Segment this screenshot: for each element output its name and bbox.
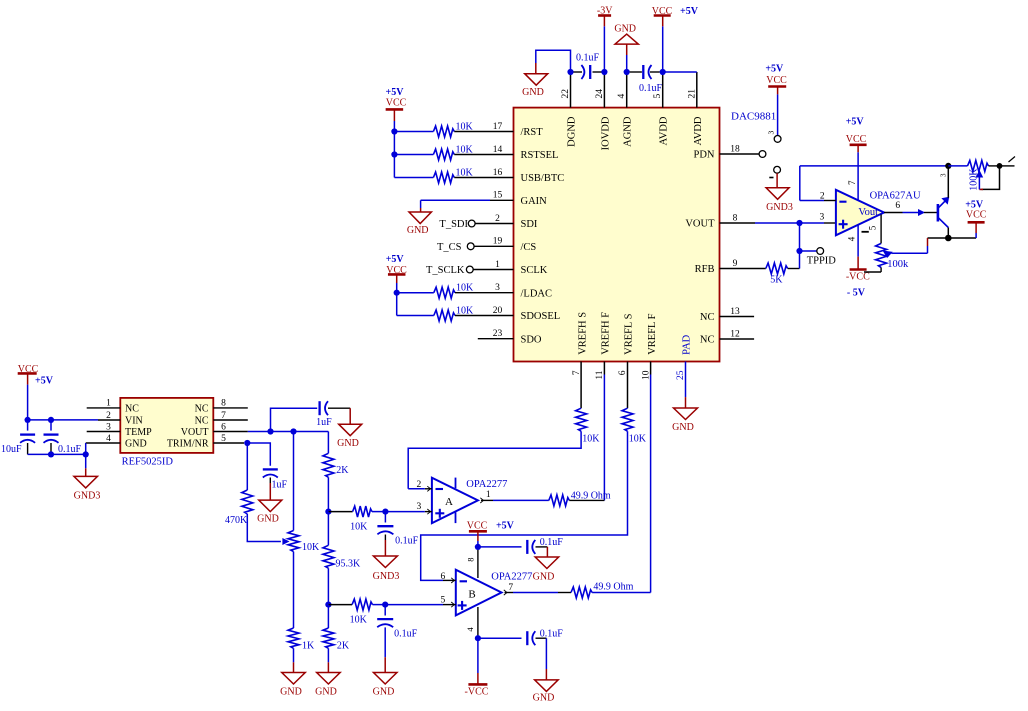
svg-text:NC: NC	[700, 312, 715, 323]
U1 pin number 25	[676, 370, 686, 380]
test point T_CS circle	[467, 243, 474, 250]
wire AGND to GND	[626, 44, 628, 72]
svg-text:GND: GND	[315, 687, 337, 698]
wire 95.3K to node B	[327, 568, 329, 604]
U4 pin8 stub	[213, 407, 248, 409]
svg-text:/LDAC: /LDAC	[521, 288, 553, 299]
svg-text:RFB: RFB	[695, 264, 715, 275]
U2 pin 7 number	[847, 180, 857, 185]
resistor 10K (pin 14 series)	[433, 149, 454, 160]
capacitor 10uF pins	[27, 420, 29, 431]
resistor 2K (top)	[323, 453, 334, 477]
U3A pin 2 number	[417, 480, 422, 490]
wire IOVDD to -3V	[603, 16, 605, 73]
wire pin4 to gnd rail	[85, 443, 87, 454]
capacitor 0.1uF (REF)	[44, 435, 59, 443]
U1 pin number 21	[687, 89, 697, 99]
label 0.1uF	[58, 444, 82, 455]
pot bottom to -VCC	[864, 267, 881, 272]
capacitor 1uF (VOUT)	[320, 401, 328, 415]
U1 pin name NC (pin 12)	[700, 335, 715, 346]
U3A pin2 stub	[408, 486, 432, 491]
U1 pin number 20	[493, 306, 503, 316]
resistor 49.9 Ohm (B out)	[571, 587, 592, 598]
capacitor 10uF	[20, 435, 35, 443]
wire VREFL S to opamp B feedback	[421, 431, 628, 580]
svg-text:49.9 Ohm: 49.9 Ohm	[593, 581, 633, 592]
svg-text:VREFH F: VREFH F	[601, 312, 612, 355]
label 2K	[337, 640, 350, 651]
U3B pin 5 number	[441, 595, 446, 605]
svg-text:0.1uF: 0.1uF	[576, 53, 600, 64]
power port -VCC bar	[850, 268, 867, 271]
U1 pin name SDI	[521, 219, 538, 230]
label 10K	[456, 305, 474, 316]
U1 pin name /RST	[521, 127, 544, 138]
label -VCC	[465, 686, 489, 697]
potentiometer 10K body	[288, 531, 299, 552]
power port VCC (REF input)	[18, 373, 37, 384]
svg-text:-VCC: -VCC	[465, 686, 489, 697]
power port VCC above jumper (+5V)	[768, 87, 786, 95]
wire VCC rail vertical	[393, 121, 395, 178]
svg-text:100k: 100k	[887, 259, 909, 270]
svg-text:GND: GND	[407, 225, 429, 236]
transistor Q1 emitter (up) with arrow	[938, 166, 949, 208]
junction VOUT branch pot	[290, 428, 296, 434]
U4 pin number 8	[221, 399, 226, 409]
wire / pin stub	[454, 177, 513, 179]
wire cap to GND	[536, 547, 548, 557]
resistor 10K (pin 16 series)	[433, 172, 454, 183]
svg-text:5: 5	[653, 94, 663, 99]
svg-text:+5V: +5V	[846, 116, 865, 127]
resistor 470K	[242, 490, 253, 514]
U3B pin 8 line	[477, 547, 479, 578]
label 49.9 Ohm	[571, 490, 611, 501]
resistor 10K (VREFH S)	[576, 408, 587, 431]
U4 pin7 stub	[213, 419, 248, 421]
wire	[394, 131, 433, 133]
U1 pin name SDOSEL	[521, 311, 561, 322]
ground GND3 (REF)	[74, 476, 98, 488]
U1 pin name AVDD (pin 5)	[659, 116, 670, 145]
label -3V	[597, 6, 613, 17]
wire VOUT node down	[799, 223, 801, 251]
U1 pin number 12	[730, 329, 740, 339]
resistor 1K	[288, 628, 299, 648]
U1 pin number 17	[493, 122, 503, 132]
svg-text:3: 3	[417, 502, 422, 512]
junction TRIM node	[244, 440, 250, 446]
wire to GND3	[85, 454, 87, 476]
ground GND (analog, up symbol)	[615, 34, 638, 44]
junction VIN node 2	[48, 417, 54, 423]
jumper pin number 3	[767, 131, 776, 135]
U1 pin number 10	[641, 370, 651, 380]
capacitor 0.1uF (AGND-AVDD)	[643, 65, 651, 79]
wire 49.9 to VREFH F	[569, 499, 604, 501]
junction A input node	[382, 509, 388, 515]
U4 pin name NC	[195, 403, 209, 414]
wire SDI pin 2	[475, 223, 513, 225]
wire	[397, 292, 434, 294]
U3B pin 7 number	[508, 583, 513, 593]
U2 pin 5 number	[868, 225, 878, 230]
capacitor 0.1uF (B bypass top)	[527, 540, 535, 554]
U2 pin 3 number	[820, 212, 825, 222]
svg-text:VCC: VCC	[386, 265, 407, 276]
U1 pin name DGND (pin 22)	[567, 116, 578, 147]
wire node B down to 2K	[327, 605, 329, 628]
label 0.1uF	[540, 628, 564, 639]
svg-text:GND: GND	[533, 572, 555, 583]
svg-text:95.3K: 95.3K	[336, 558, 362, 569]
label GND3	[766, 202, 793, 213]
svg-text:0.1uF: 0.1uF	[58, 444, 82, 455]
ground GND (1K)	[282, 673, 306, 685]
svg-text:VCC: VCC	[846, 134, 867, 145]
svg-text:PAD: PAD	[682, 334, 693, 354]
wire GAIN pin15 to GND	[421, 200, 514, 212]
wire / pin stub	[454, 154, 513, 156]
IC U4 REF5025ID body	[120, 398, 213, 453]
U2 pin 4 number	[847, 236, 857, 241]
wire VCC to pin7	[857, 152, 859, 199]
U4 pin number 5	[221, 434, 226, 444]
label 49.9 Ohm	[593, 581, 633, 592]
op-amp U2 plus sign	[839, 220, 848, 229]
svg-text:0.1uF: 0.1uF	[639, 83, 663, 94]
op-amp U2 OPA627AU body	[836, 190, 884, 236]
op-amp U3B OPA2277 body	[456, 570, 502, 616]
resistor 100K (feedback)	[968, 160, 989, 171]
U1 pin name /CS	[521, 242, 537, 253]
junction	[391, 151, 397, 157]
test point T_SCLK circle	[466, 266, 473, 273]
U1 pin number 23	[493, 329, 503, 339]
U1 pin name VREFL S (pin 6)	[624, 313, 635, 354]
wire A input filter cap	[384, 512, 386, 523]
test point T_SDI label	[439, 219, 468, 230]
wire VOUT to pot top	[293, 432, 295, 531]
svg-text:15: 15	[493, 191, 503, 201]
test point TPPID circle	[817, 248, 824, 255]
junction pin4 gnd node	[83, 451, 89, 457]
svg-text:AVDD: AVDD	[693, 116, 704, 145]
label GND	[337, 438, 359, 449]
U4 pin number 6	[221, 422, 226, 432]
svg-text:NC: NC	[195, 415, 209, 426]
svg-text:4: 4	[465, 627, 475, 632]
U1 pin name IOVDD (pin 24)	[600, 116, 611, 150]
svg-text:17: 17	[493, 122, 503, 132]
U1 pin name AGND (pin 4)	[623, 116, 634, 147]
U1 pin number 15	[493, 191, 503, 201]
label 10K	[456, 167, 474, 178]
power port VCC (upper left)	[386, 109, 404, 121]
U1 pin number 8	[733, 213, 738, 223]
svg-text:8: 8	[465, 558, 475, 562]
ground GND (B filter)	[373, 673, 397, 685]
U4 pin1 stub	[87, 407, 121, 409]
label 100K (rotated)	[969, 168, 980, 191]
U1 pin number 11	[595, 370, 605, 379]
U3A pin3 stub	[385, 509, 432, 514]
junction pin5 node	[660, 69, 666, 75]
wire 10K to A input node	[372, 511, 385, 513]
U1 pin name VREFH S (pin 7)	[577, 312, 588, 355]
capacitor 0.1uF (AGND-AVDD) pins	[630, 71, 660, 73]
label +5V	[386, 87, 405, 98]
label +5V	[846, 116, 865, 127]
wire collector node to VCC	[948, 222, 976, 238]
label 10K	[350, 522, 368, 533]
svg-text:/RST: /RST	[521, 127, 544, 138]
svg-text:2K: 2K	[336, 465, 349, 476]
U1 pin name AVDD (pin 21)	[693, 116, 704, 145]
U3A power stub top	[455, 478, 457, 489]
svg-text:+5V: +5V	[386, 254, 405, 265]
svg-text:22: 22	[561, 89, 571, 99]
resistor 10K (B +input)	[352, 599, 372, 610]
U2 pin 6 number	[895, 201, 900, 211]
test point T_SCLK label	[426, 265, 465, 276]
label VCC	[467, 520, 488, 531]
label GND	[257, 513, 279, 524]
ground GND (B bypass top)	[535, 557, 559, 569]
U1 pin number 19	[493, 237, 503, 247]
wire cap to GND3	[384, 535, 386, 557]
label GND	[315, 687, 337, 698]
U1 pin number 16	[493, 168, 503, 178]
capacitor 0.1uF (DGND-IOVDD) pins	[574, 71, 602, 73]
pot 10K wiper arrow	[283, 539, 289, 544]
svg-text:GND: GND	[125, 438, 147, 449]
U1 pin number 4	[617, 94, 627, 99]
svg-text:3: 3	[940, 173, 948, 177]
svg-text:23: 23	[493, 329, 503, 339]
U1 pin name VREFH F (pin 11)	[601, 312, 612, 355]
U1 pin number 24	[595, 89, 605, 99]
svg-text:NC: NC	[700, 335, 715, 346]
wire	[394, 154, 433, 156]
capacitor 0.1uF (DGND-IOVDD)	[581, 65, 590, 79]
test point TPPID label	[807, 255, 837, 266]
power port -VCC bar (U3B)	[468, 683, 487, 686]
svg-text:1K: 1K	[302, 640, 315, 651]
svg-text:AGND: AGND	[623, 116, 634, 147]
svg-text:19: 19	[493, 237, 503, 247]
svg-text:SCLK: SCLK	[521, 265, 548, 276]
svg-text:11: 11	[595, 370, 605, 379]
svg-text:7: 7	[572, 370, 582, 375]
svg-text:GND: GND	[373, 687, 395, 698]
svg-text:7: 7	[508, 583, 513, 593]
junction VIN node 1	[25, 417, 31, 423]
resistor 10K (A +input)	[353, 506, 372, 517]
svg-text:3: 3	[767, 131, 776, 135]
svg-text:+5V: +5V	[496, 520, 515, 531]
U3B pin 6 number	[441, 572, 446, 582]
svg-text:SDO: SDO	[521, 334, 542, 345]
wire 10uF bottom	[28, 443, 51, 454]
svg-text:5: 5	[868, 225, 878, 230]
U3B pin 8 number rotated	[465, 558, 475, 562]
U1 pin number 7	[572, 370, 582, 375]
svg-text:100K: 100K	[969, 168, 980, 191]
svg-text:10K: 10K	[456, 144, 474, 155]
wire 1uF TRIM to GND	[269, 478, 271, 501]
transistor Q1 collector pin number 3	[940, 173, 948, 177]
label 470K	[225, 515, 248, 526]
svg-text:3: 3	[495, 283, 500, 293]
U1 pin number 2	[495, 214, 500, 224]
svg-text:DGND: DGND	[567, 116, 578, 147]
net label Vout	[858, 207, 878, 218]
U4 pin name VOUT	[181, 427, 209, 438]
ground GND (TRIM cap)	[259, 500, 282, 512]
op-amp U3A OPA2277 body	[432, 478, 478, 523]
potentiometer 100k body	[876, 243, 887, 267]
wire node A down to 95.3K	[327, 512, 329, 546]
U1 pin name SCLK	[521, 265, 548, 276]
ground GND (1uF)	[339, 424, 362, 436]
junction U3B pin4 node	[475, 635, 481, 641]
label 0.1uF	[540, 537, 564, 548]
wire / pin stub	[455, 292, 514, 294]
svg-text:24: 24	[595, 89, 605, 99]
U1 pin number 9	[733, 259, 738, 269]
wire node A to 10K	[328, 511, 352, 513]
label GND	[533, 692, 555, 703]
U1 pin name GAIN	[521, 196, 548, 207]
label 10K	[456, 283, 474, 294]
svg-text:6: 6	[895, 201, 900, 211]
junction node A divider	[325, 509, 331, 515]
svg-text:+5V: +5V	[386, 87, 405, 98]
junction B input node	[382, 602, 388, 608]
svg-text:10uF: 10uF	[1, 444, 22, 455]
svg-text:Vout: Vout	[858, 207, 878, 218]
label 100k	[887, 259, 909, 270]
svg-text:1uF: 1uF	[316, 417, 332, 428]
wire 1K to GND	[293, 648, 295, 672]
svg-text:4: 4	[617, 94, 627, 99]
wire AVDD pin5 to VCC	[662, 16, 664, 73]
svg-text:T_CS: T_CS	[437, 242, 462, 253]
wire collector node to pot wiper	[893, 238, 948, 253]
pot top pin to U2 pin5	[880, 215, 882, 244]
wire RFB pin9	[720, 268, 766, 270]
wire / pin stub	[454, 131, 513, 133]
offset null dash	[862, 231, 869, 233]
svg-text:VCC: VCC	[766, 75, 787, 86]
capacitor 0.1uF (A filter)	[377, 526, 393, 534]
svg-text:GAIN: GAIN	[521, 196, 548, 207]
junction VOUT node	[796, 220, 802, 226]
svg-text:GND3: GND3	[74, 491, 101, 502]
label 0.1uF	[394, 628, 418, 639]
svg-text:16: 16	[493, 168, 503, 178]
label -VCC	[846, 271, 870, 282]
svg-text:PDN: PDN	[693, 150, 714, 161]
U3B pin5 stub	[385, 602, 456, 607]
U3B plus sign	[458, 601, 467, 610]
wire arrow to base	[919, 210, 938, 215]
label VCC	[966, 210, 987, 221]
test point T_CS label	[437, 242, 462, 253]
wire 0.1uF bottom	[50, 443, 52, 454]
ground GND (B bypass bottom)	[535, 680, 559, 692]
wire PDN pin 18	[720, 153, 760, 155]
wire VIN	[28, 419, 98, 421]
U4 pin6 VOUT stub	[213, 431, 248, 433]
U1 pin 25 PAD to GND	[685, 362, 687, 409]
label GND	[533, 572, 555, 583]
U4 pin number 2	[106, 411, 111, 421]
label +5V	[496, 520, 515, 531]
label 10K	[456, 144, 474, 155]
ground GND (GAIN)	[409, 212, 431, 224]
label GND3	[74, 491, 101, 502]
U3B designator OPA2277	[491, 572, 532, 583]
svg-text:VREFL S: VREFL S	[624, 313, 635, 354]
U2 pin 4 line to -VCC	[857, 225, 859, 270]
svg-text:VCC: VCC	[966, 210, 987, 221]
label 0.1uF	[576, 53, 600, 64]
wire B input filter cap	[384, 605, 386, 616]
U1 pin name NC (pin 13)	[700, 312, 715, 323]
svg-text:+5V: +5V	[965, 199, 984, 210]
label VCC	[652, 6, 673, 17]
wire pin4 node to -VCC	[477, 638, 479, 684]
junction pin24 node	[601, 69, 607, 75]
svg-text:0.1uF: 0.1uF	[394, 628, 418, 639]
power port VCC bar	[654, 14, 671, 17]
U3B output wire	[504, 590, 571, 595]
svg-text:GND: GND	[257, 513, 279, 524]
U4 pin4 stub	[86, 442, 121, 444]
U3A letter A	[445, 496, 453, 508]
svg-text:AVDD: AVDD	[659, 116, 670, 145]
U4 pin name VIN	[125, 415, 143, 426]
label 10K	[582, 433, 600, 444]
ground GND3 (A filter)	[373, 556, 397, 568]
label 2K	[336, 465, 349, 476]
label 95.3K	[336, 558, 362, 569]
svg-text:/CS: /CS	[521, 242, 537, 253]
svg-text:2: 2	[495, 214, 500, 224]
label GND	[280, 687, 302, 698]
svg-text:VIN: VIN	[125, 415, 143, 426]
svg-text:TPPID: TPPID	[807, 255, 837, 266]
resistor 10K (pin 20 series)	[434, 310, 455, 321]
svg-text:9: 9	[733, 259, 738, 269]
svg-text:VCC: VCC	[652, 6, 673, 17]
capacitor 0.1uF (B bypass bottom)	[527, 631, 535, 645]
label GND	[407, 225, 429, 236]
svg-text:20: 20	[493, 306, 503, 316]
svg-text:1: 1	[486, 490, 491, 500]
ground GND3 (jumper)	[766, 188, 789, 200]
junction	[391, 128, 397, 134]
wire 2K to node A	[327, 477, 329, 511]
svg-text:A: A	[445, 496, 453, 508]
wire VCC to jumper pin	[777, 94, 779, 135]
label +5V	[765, 64, 784, 75]
U1 pin number 5	[653, 94, 663, 99]
